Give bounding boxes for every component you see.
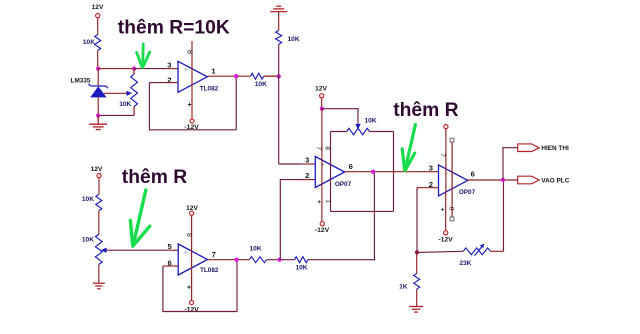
U2 V+ stub pin 8 (through triangle)	[191, 215, 193, 267]
wire node A to pot RV1	[98, 68, 134, 70]
svg-text:10K: 10K	[119, 101, 131, 108]
svg-text:-12V: -12V	[184, 306, 199, 313]
svg-text:thêm R: thêm R	[393, 100, 458, 121]
svg-text:7: 7	[212, 250, 216, 259]
wire R7 to ground G4	[416, 289, 418, 307]
power terminal 12V U4	[444, 125, 448, 129]
svg-text:+: +	[187, 285, 191, 292]
RV3 right lead wire	[370, 131, 394, 133]
svg-text:-12V: -12V	[315, 227, 330, 234]
svg-text:12V: 12V	[92, 4, 104, 11]
ground G3	[93, 283, 105, 289]
svg-text:8: 8	[447, 207, 454, 211]
feedback wire U2	[163, 260, 237, 312]
svg-text:-12V: -12V	[438, 237, 453, 244]
wire RV3 right down	[393, 132, 395, 212]
green arrow 3 (diagonal, at U3 output)	[402, 125, 415, 171]
wire RV2 to ground G3	[98, 265, 100, 284]
resistor R2 10K (U1 output)	[251, 73, 264, 79]
wire G2 to R3	[278, 12, 280, 31]
junction U3 output	[371, 170, 375, 174]
U4 trim pin 1 stub	[451, 189, 453, 217]
svg-text:+: +	[317, 199, 321, 206]
RV4 wiper diagonal arrow	[475, 247, 482, 256]
op-amp U1 TL082 (top)	[178, 61, 207, 92]
junction node B	[277, 74, 281, 78]
wire to U3 pin 2	[280, 180, 301, 260]
wire R1 to node A	[97, 51, 99, 69]
U3 pin 3 stub	[301, 163, 315, 165]
connector flag VAO PLC	[518, 176, 540, 184]
junction U3 supply	[320, 107, 324, 111]
resistor R3 10K	[276, 30, 282, 44]
ground G4	[409, 307, 423, 313]
wire U4 pin2 down	[416, 188, 418, 253]
svg-text:7: 7	[439, 153, 446, 157]
potentiometer RV4 23K	[463, 248, 490, 255]
svg-text:10K: 10K	[82, 196, 94, 203]
U3 pin 2 stub	[301, 179, 315, 181]
ground stem #1	[97, 115, 99, 124]
power terminal 12V U3	[320, 94, 324, 98]
wire RV3 left down	[330, 132, 332, 212]
svg-text:10K: 10K	[288, 36, 300, 43]
wire RV2 wiper to U2 pin 5	[106, 249, 164, 251]
connector flag HIEN THI	[518, 144, 540, 152]
svg-text:10K: 10K	[82, 237, 94, 244]
svg-text:TL082: TL082	[200, 267, 219, 274]
svg-text:thêm R=10K: thêm R=10K	[118, 17, 230, 38]
wire RV4 up to output	[503, 180, 505, 251]
junction U1 output	[234, 74, 238, 78]
wire U2 pin 6	[163, 265, 178, 267]
potentiometer RV3 10K (feedback)	[347, 128, 370, 134]
svg-text:6: 6	[349, 162, 353, 171]
U1 pin 3 stub	[164, 68, 179, 70]
power terminal -12V U2	[190, 300, 194, 304]
U1 output wire	[207, 75, 250, 77]
wire 12V to R1	[97, 18, 99, 35]
junction summing node	[277, 258, 281, 262]
svg-text:OP07: OP07	[335, 181, 352, 188]
RV4 right lead	[490, 250, 503, 252]
power terminal -12V U4	[444, 231, 448, 235]
svg-text:12V: 12V	[91, 166, 103, 173]
trim pin 8 square pad U4 top	[450, 138, 454, 142]
svg-text:OP07: OP07	[459, 189, 476, 196]
U3 output wire to U4 pin 3	[345, 171, 439, 173]
svg-text:2: 2	[305, 171, 309, 180]
node A junction	[96, 66, 100, 70]
svg-text:1: 1	[325, 199, 332, 203]
wire RV1 bottom to ground node	[98, 114, 134, 116]
svg-text:3: 3	[305, 155, 309, 164]
U2 output wire	[208, 259, 250, 261]
svg-text:10K: 10K	[83, 39, 95, 46]
svg-text:3: 3	[167, 60, 171, 69]
svg-text:1K: 1K	[399, 283, 408, 290]
wire R4 to RV2	[98, 211, 100, 234]
wire 12V to R4	[98, 178, 100, 195]
potentiometer RV1 10K	[131, 74, 138, 106]
svg-text:+: +	[441, 207, 445, 214]
trim pin 1 square pad U4 bottom	[450, 217, 454, 221]
U1 V+ stub pin 8 (through triangle)	[191, 41, 193, 85]
U4 trim pin 8 stub (through triangle)	[451, 142, 453, 189]
svg-text:6: 6	[471, 170, 475, 179]
svg-text:TL082: TL082	[200, 86, 219, 93]
ground G2 (inverted)	[270, 6, 287, 11]
svg-text:HIEN THI: HIEN THI	[541, 145, 569, 152]
wire down to R7	[416, 252, 418, 273]
LM335 cathode bar	[89, 84, 109, 88]
svg-text:12V: 12V	[315, 85, 327, 92]
junction RV1 top	[132, 66, 136, 70]
wire R5 to R6	[267, 259, 295, 261]
wire to U3 pin 3	[279, 163, 301, 165]
wire junction to RV3 wiper	[322, 109, 358, 125]
LM335 diode triangle	[91, 87, 105, 97]
svg-text:+: +	[184, 250, 188, 257]
RV3 left lead wire	[331, 131, 347, 133]
RV3 wiper arrow	[355, 124, 360, 130]
feedback wire U1	[149, 76, 236, 130]
svg-text:3: 3	[429, 164, 433, 173]
resistor R6 10K (summing)	[295, 257, 308, 263]
U2 V- stub pin 4	[191, 267, 193, 300]
U2 pin 5 stub	[164, 249, 178, 251]
svg-text:LM335: LM335	[71, 78, 91, 85]
svg-text:+: +	[187, 102, 191, 109]
wire 12V to junction U3	[321, 98, 323, 109]
power terminal -12V U1	[190, 119, 194, 123]
RV1 top lead	[133, 69, 135, 75]
resistor R4 10K	[96, 194, 102, 210]
U3 V+ stub pin 7 (through triangle)	[321, 109, 323, 184]
wire LM335 to ground node	[97, 97, 99, 115]
resistor R5 10K (U2 output)	[249, 257, 266, 263]
junction U2 output	[234, 258, 238, 262]
op-amp U3 OP07	[315, 157, 344, 188]
RV2 wiper arrow	[101, 248, 107, 253]
svg-text:10K: 10K	[249, 245, 261, 252]
svg-text:VAO PLC: VAO PLC	[541, 178, 569, 185]
U1 pin 2 stub	[164, 82, 179, 84]
LM335 adj arrow to RV1 wiper	[104, 92, 128, 94]
wire U1 pin 2	[149, 82, 163, 84]
R2 right lead	[264, 75, 279, 77]
svg-text:8: 8	[185, 233, 192, 237]
svg-text:10K: 10K	[295, 264, 307, 271]
ground G1	[89, 124, 107, 129]
svg-text:8: 8	[185, 50, 192, 54]
junction U4 output	[501, 178, 505, 182]
wire U4 pin 2	[417, 187, 439, 189]
wire to RV4	[417, 251, 463, 252]
resistor R1 10K	[95, 35, 101, 51]
wire RV1 to U1 pin 3	[134, 68, 163, 70]
power terminal 12V #2	[97, 174, 101, 178]
U4 V+ stub pin 7 (through triangle)	[445, 129, 447, 192]
svg-text:23K: 23K	[459, 260, 471, 267]
op-amp U4 OP07	[439, 165, 468, 196]
junction ground node	[96, 113, 100, 117]
svg-text:7: 7	[315, 146, 322, 150]
resistor R7 1K	[414, 274, 420, 290]
U4 V- stub pin 4	[445, 192, 447, 231]
svg-text:1: 1	[211, 67, 216, 76]
svg-text:+: +	[184, 67, 188, 74]
svg-text:10K: 10K	[255, 81, 267, 88]
wire node B down to U3 pin 3	[278, 44, 280, 164]
power terminal 12V U2	[190, 211, 194, 215]
U3 V- stub pin 4	[321, 184, 323, 222]
svg-text:10K: 10K	[364, 117, 376, 124]
RV1 bottom lead	[133, 107, 135, 116]
wire node A to LM335	[97, 69, 99, 86]
wire to HIEN THI	[503, 148, 518, 180]
power terminal 12V #1	[96, 14, 100, 18]
power terminal -12V U3	[320, 222, 324, 226]
svg-text:8: 8	[324, 146, 331, 150]
junction 1K node	[415, 250, 419, 254]
feedback bottom wire U3	[331, 210, 394, 212]
op-amp U2 TL082 (bottom)	[178, 244, 207, 275]
svg-text:thêm R: thêm R	[122, 167, 187, 188]
U4 output wire	[467, 179, 518, 181]
green arrow 2 (diagonal, at RV2)	[130, 190, 149, 246]
potentiometer RV2 10K	[95, 234, 102, 265]
wire R6 up to U3 output	[308, 172, 375, 260]
green arrow 1 (down, at RV1)	[137, 44, 150, 67]
U1 V- stub pin 4	[191, 85, 193, 119]
